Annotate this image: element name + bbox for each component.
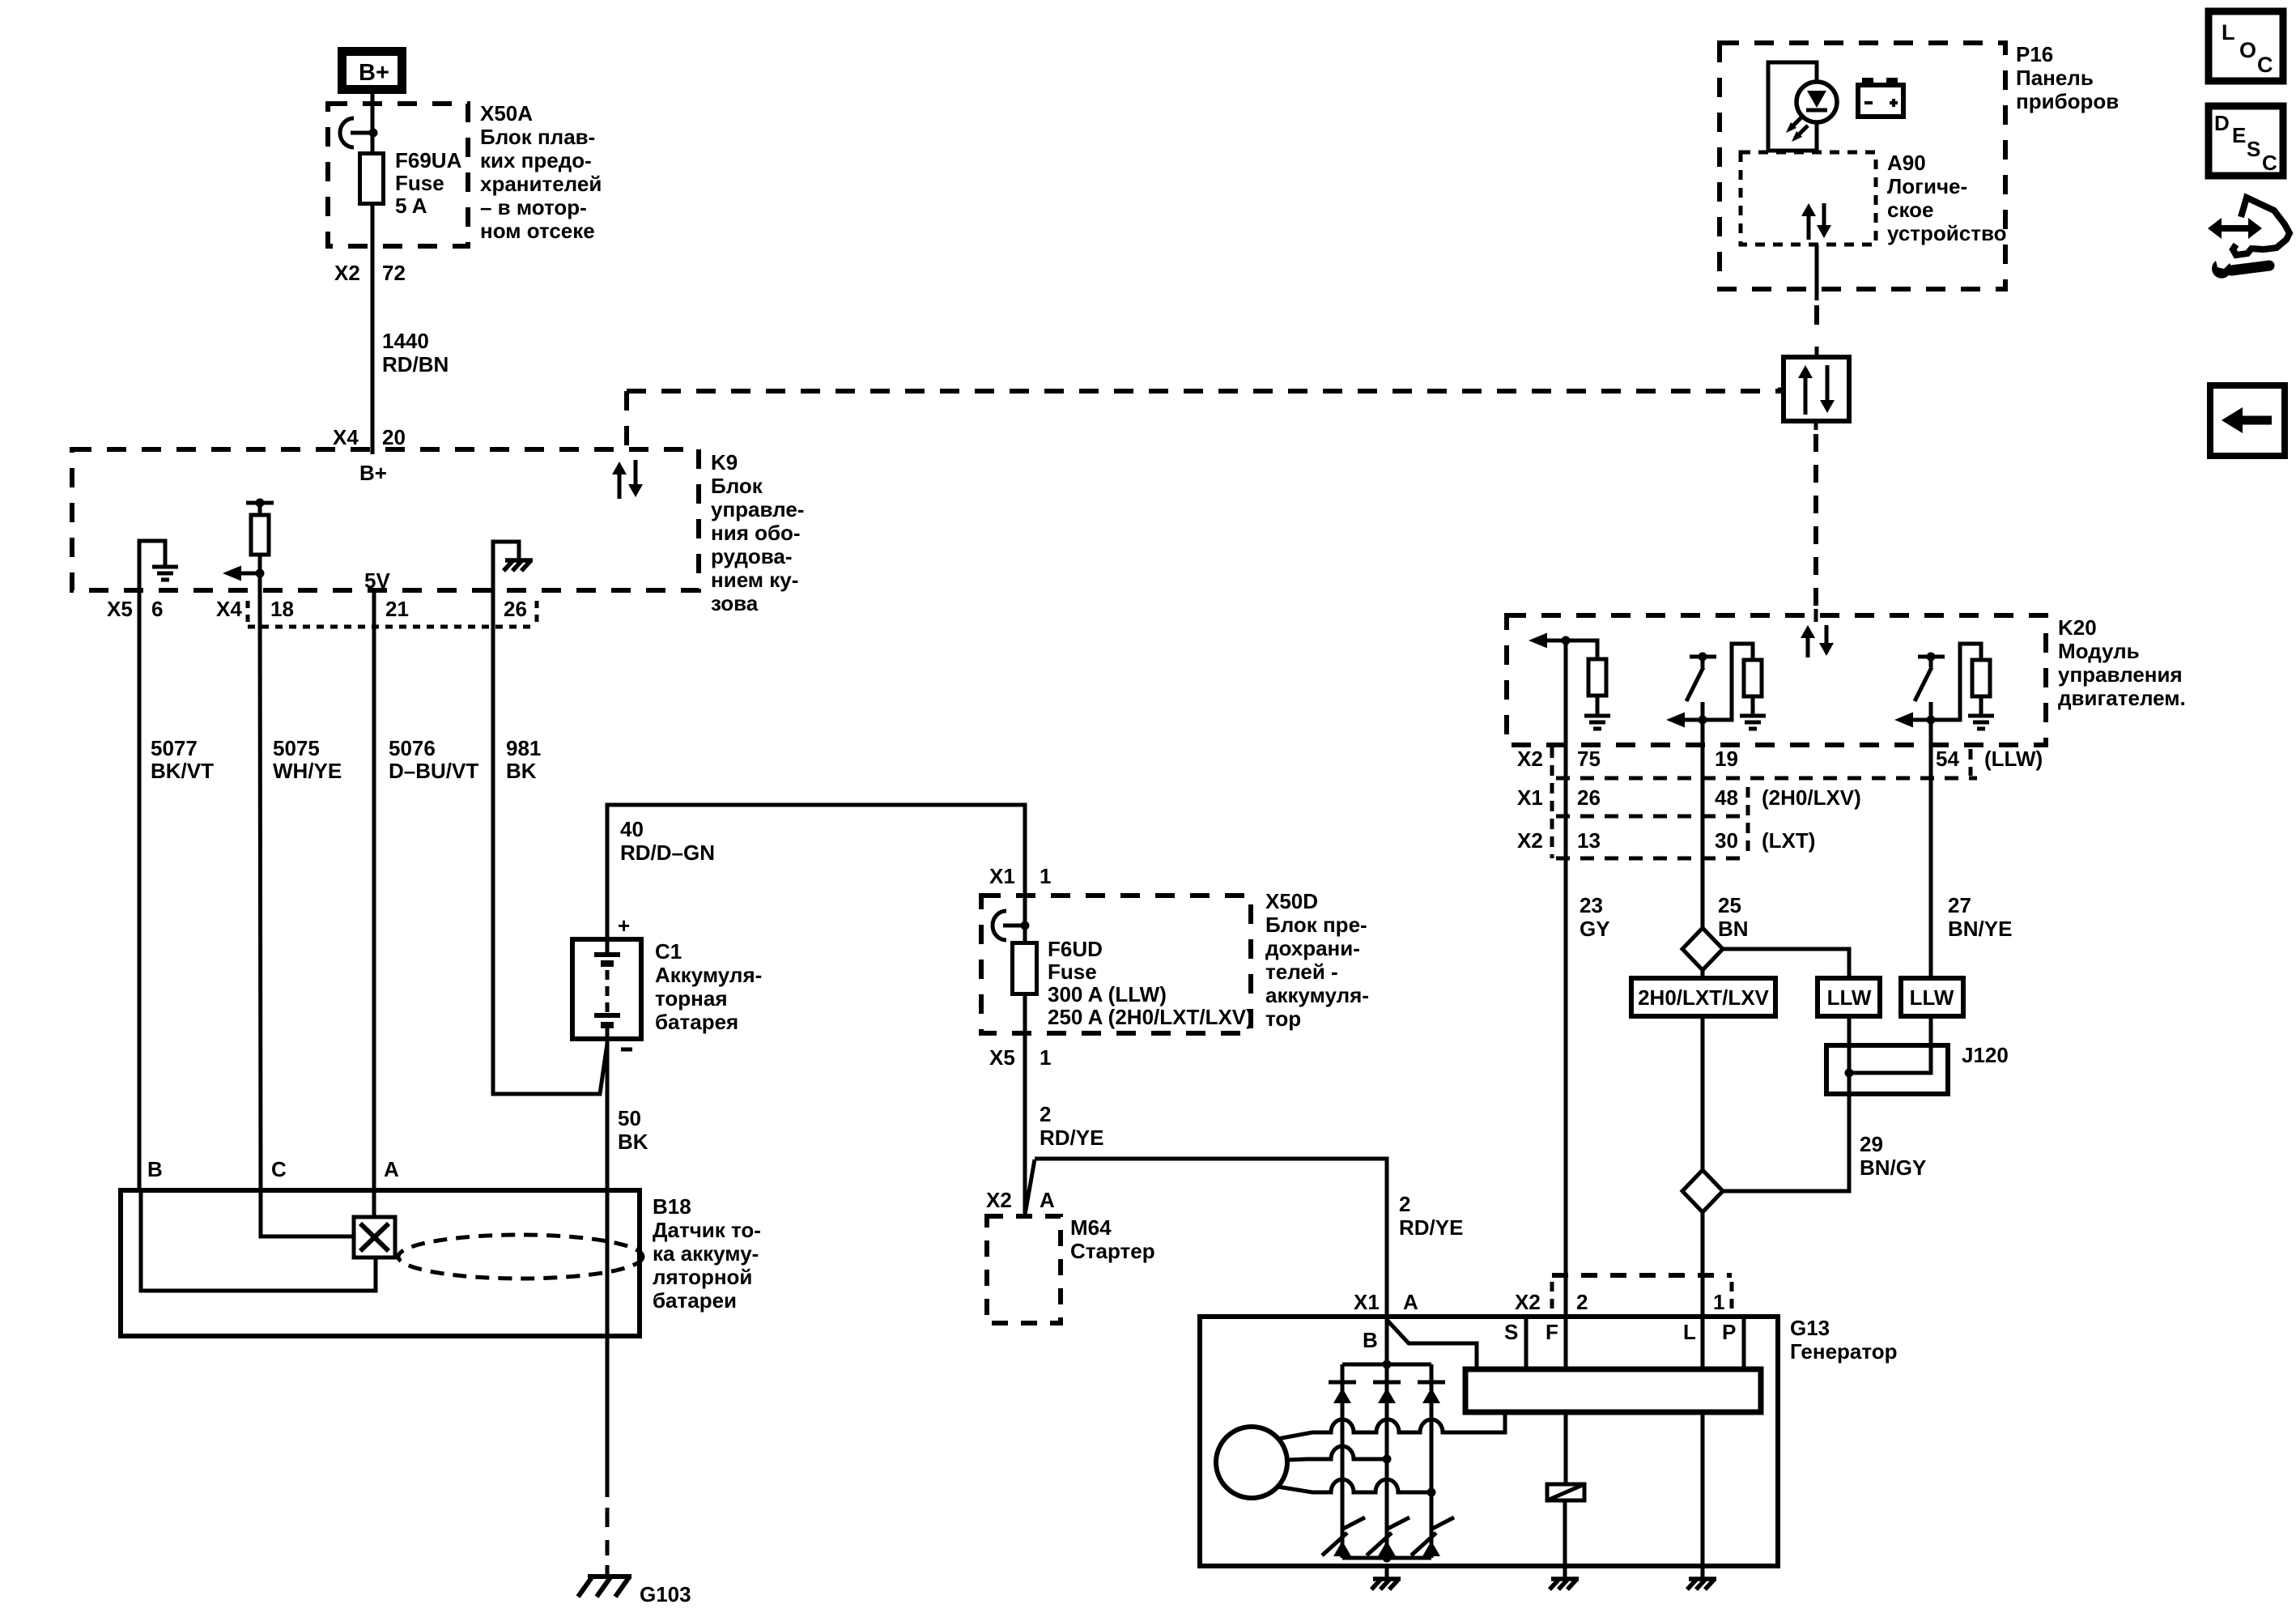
K20 circuit1 output arrow <box>1529 633 1547 649</box>
svg-text:– в мотор-: – в мотор- <box>480 195 587 219</box>
svg-text:X2: X2 <box>1517 828 1543 853</box>
generator ground L <box>1689 1577 1716 1581</box>
svg-text:Блок плав-: Блок плав- <box>480 125 595 149</box>
svg-text:устройство: устройство <box>1887 221 2006 245</box>
chassis ground in K9 <box>505 558 533 563</box>
svg-text:WH/YE: WH/YE <box>273 759 342 783</box>
wire diamond2 to generator pin 1 <box>1701 1212 1705 1566</box>
panel P16 dashed box <box>1720 43 2005 289</box>
pin cell dividers <box>1524 1317 1529 1369</box>
stator phase mid <box>1287 1446 1387 1460</box>
bottom avalanche diode left <box>1333 1541 1351 1556</box>
svg-text:RD/YE: RD/YE <box>1040 1126 1103 1150</box>
wire LLW1 branch <box>1723 949 1849 1191</box>
serial data arrows in K9 <box>618 471 622 499</box>
svg-text:телей -: телей - <box>1265 960 1338 984</box>
svg-text:26: 26 <box>1577 785 1601 810</box>
ground G103 <box>588 1574 631 1579</box>
svg-text:1: 1 <box>1040 864 1051 888</box>
icon back arrow box <box>2210 385 2285 456</box>
rectifier bottom rail <box>1342 1556 1431 1560</box>
svg-text:LLW: LLW <box>1910 985 1954 1010</box>
svg-text:Fuse: Fuse <box>395 171 444 195</box>
bottom avalanche diode right <box>1422 1541 1440 1556</box>
wire 23 GY K20 pin 75 to generator F <box>1564 640 1568 1484</box>
clip symbol at F6UD <box>993 911 1006 940</box>
K20 circuit3 output arrow <box>1894 713 1913 728</box>
power symbol B+ terminal <box>342 52 402 90</box>
svg-text:BN: BN <box>1718 917 1749 941</box>
svg-text:управле-: управле- <box>711 497 804 521</box>
svg-text:BK: BK <box>618 1130 648 1154</box>
sensor element box with X <box>354 1217 395 1257</box>
LED emission arrows <box>1789 117 1802 130</box>
engine option box LLW 1 <box>1818 978 1880 1016</box>
K20 circuit2 resistor <box>1703 644 1753 720</box>
rectifier column left <box>1341 1364 1345 1558</box>
rectifier top rail <box>1342 1363 1431 1367</box>
svg-text:ка аккуму-: ка аккуму- <box>653 1241 759 1266</box>
wire C inside B18 <box>261 1190 355 1236</box>
svg-text:ляторной: ляторной <box>653 1265 752 1289</box>
svg-text:ское: ское <box>1887 198 1933 222</box>
ground circuit K9 pin 6 <box>139 541 165 590</box>
svg-text:J120: J120 <box>1962 1043 2009 1067</box>
svg-text:LLW: LLW <box>1827 985 1872 1010</box>
svg-text:X4: X4 <box>333 425 359 449</box>
svg-text:6: 6 <box>151 597 163 621</box>
svg-text:40: 40 <box>620 817 644 841</box>
svg-text:батарея: батарея <box>655 1010 738 1034</box>
top diode mid <box>1373 1381 1401 1385</box>
sensor B18 box <box>121 1190 640 1336</box>
battery C1 <box>572 939 641 1039</box>
svg-text:29: 29 <box>1860 1132 1883 1156</box>
svg-text:B18: B18 <box>653 1194 691 1219</box>
svg-text:X5: X5 <box>989 1045 1015 1070</box>
wire B to regulator S <box>1387 1320 1477 1369</box>
svg-text:5075: 5075 <box>273 736 320 760</box>
svg-text:RD/BN: RD/BN <box>382 352 449 377</box>
svg-text:A: A <box>1040 1188 1055 1212</box>
svg-text:управления: управления <box>2058 662 2183 687</box>
svg-text:S: S <box>2247 137 2260 161</box>
splice pack J120 box <box>1826 1045 1948 1094</box>
svg-text:X1: X1 <box>1517 785 1543 810</box>
K20 circuit3 resistor <box>1931 644 1981 720</box>
K20 circuit1 ground <box>1584 714 1610 718</box>
svg-text:GY: GY <box>1580 917 1610 941</box>
svg-text:B+: B+ <box>359 461 387 485</box>
resistor in K9 <box>246 501 274 505</box>
svg-text:54: 54 <box>1936 747 1959 771</box>
logic device A90 dashed box <box>1741 152 1876 245</box>
svg-text:L: L <box>2222 20 2235 45</box>
svg-text:BK/VT: BK/VT <box>151 759 214 783</box>
connector bracket dashed lines <box>1550 747 1554 858</box>
svg-text:O: O <box>2239 38 2256 62</box>
connector box X50D dashed <box>981 896 1251 1033</box>
svg-text:5 A: 5 A <box>395 194 427 218</box>
wire serial data dashed K9 to gateway <box>624 391 629 450</box>
signal ground in K9 <box>152 565 178 569</box>
svg-text:(LXT): (LXT) <box>1762 828 1815 853</box>
serial data arrows in K20 <box>1806 635 1810 657</box>
svg-text:зова: зова <box>711 591 759 615</box>
svg-text:Аккумуля-: Аккумуля- <box>655 963 762 987</box>
svg-text:P16: P16 <box>2016 42 2053 66</box>
K20 circuit1 resistor <box>1566 640 1597 659</box>
svg-text:RD/YE: RD/YE <box>1399 1215 1463 1240</box>
svg-text:Блок пре-: Блок пре- <box>1265 913 1367 937</box>
svg-text:BK: BK <box>506 759 537 783</box>
dashed ellipse current loop <box>398 1235 643 1279</box>
svg-text:ном отсеке: ном отсеке <box>480 219 595 243</box>
connector X4 dotted bracket <box>246 601 250 627</box>
svg-text:D: D <box>2214 111 2230 135</box>
svg-text:торная: торная <box>655 986 728 1011</box>
svg-text:5077: 5077 <box>151 736 198 760</box>
LED circle <box>1796 82 1837 122</box>
svg-text:981: 981 <box>506 736 541 760</box>
svg-text:A90: A90 <box>1887 151 1926 175</box>
serial gateway arrows box <box>1784 357 1849 421</box>
svg-text:X1: X1 <box>989 864 1015 888</box>
wire 40 RD/D-GN <box>607 805 1025 939</box>
stator phase top <box>1278 1412 1505 1439</box>
svg-text:1440: 1440 <box>382 329 429 353</box>
svg-text:X50A: X50A <box>480 101 533 126</box>
wire A inside B18 <box>372 1190 376 1217</box>
svg-text:48: 48 <box>1715 785 1738 810</box>
wire 25 BN K20 pin 19 <box>1701 720 1705 928</box>
svg-text:X2: X2 <box>986 1188 1012 1212</box>
svg-text:X2: X2 <box>1515 1290 1541 1314</box>
wire fuse to K9 pin X4/20 <box>371 204 375 454</box>
battery minus label <box>621 1048 632 1052</box>
svg-text:L: L <box>1683 1320 1696 1344</box>
svg-text:D–BU/VT: D–BU/VT <box>389 759 478 783</box>
wire K9 resistor to pin 18 <box>258 573 262 590</box>
svg-text:G13: G13 <box>1790 1316 1830 1340</box>
svg-text:13: 13 <box>1577 828 1601 853</box>
clip symbol at X50A input <box>340 118 354 147</box>
svg-text:250 A (2H0/LXT/LXV): 250 A (2H0/LXT/LXV) <box>1048 1005 1253 1029</box>
stator phase bottom <box>1278 1479 1431 1492</box>
svg-text:Панель: Панель <box>2016 66 2094 90</box>
junction dot in J120 <box>1845 1069 1854 1078</box>
svg-text:2: 2 <box>1399 1192 1410 1216</box>
svg-text:X4: X4 <box>216 597 242 621</box>
K20 circuit2 output arrow <box>1666 713 1685 728</box>
svg-text:хранителей: хранителей <box>480 172 602 196</box>
wire 25 BN diamond to 2H0 box and diamond2 <box>1701 970 1705 1170</box>
K20 circuit2 ground <box>1740 714 1766 718</box>
field winding relay <box>1547 1484 1584 1500</box>
svg-text:C: C <box>271 1157 287 1181</box>
svg-text:A: A <box>1403 1290 1418 1314</box>
svg-text:рудова-: рудова- <box>711 544 793 568</box>
rectifier column right <box>1430 1364 1434 1558</box>
svg-text:Датчик то-: Датчик то- <box>653 1218 761 1242</box>
svg-text:25: 25 <box>1718 893 1741 917</box>
svg-text:S: S <box>1504 1320 1518 1344</box>
generator ground F <box>1551 1577 1579 1581</box>
svg-text:2H0/LXT/LXV: 2H0/LXT/LXV <box>1638 985 1769 1010</box>
svg-text:75: 75 <box>1577 747 1601 771</box>
svg-text:приборов: приборов <box>2016 89 2119 113</box>
svg-text:A: A <box>384 1157 399 1181</box>
svg-text:X2: X2 <box>1517 747 1543 771</box>
engine option box 2H0/LXT/LXV <box>1631 978 1775 1016</box>
svg-text:2: 2 <box>1576 1290 1588 1314</box>
generator ground B <box>1373 1577 1401 1581</box>
svg-text:двигателем.: двигателем. <box>2058 686 2186 710</box>
wire serial data dashed P16 to gateway <box>1815 277 1819 300</box>
svg-text:5076: 5076 <box>389 736 436 760</box>
svg-text:Блок: Блок <box>711 474 763 498</box>
wire splice to generator branch <box>1025 1160 1035 1215</box>
svg-text:BN/GY: BN/GY <box>1860 1155 1926 1180</box>
svg-text:C: C <box>2257 53 2273 77</box>
wire LLW2 to J120 junction <box>1849 1016 1931 1073</box>
svg-text:X1: X1 <box>1354 1290 1380 1314</box>
fuse F69UA <box>360 154 384 204</box>
K20 circuit2 switch <box>1690 655 1716 659</box>
svg-text:Fuse: Fuse <box>1048 960 1097 984</box>
svg-text:C1: C1 <box>655 939 682 964</box>
svg-text:Стартер: Стартер <box>1070 1239 1155 1263</box>
svg-text:ких предо-: ких предо- <box>480 148 592 172</box>
wire 5076 D-BU/VT <box>372 590 376 1190</box>
ground circuit K9 pin 26 <box>493 542 519 590</box>
svg-text:X2: X2 <box>334 261 360 285</box>
wire serial data dashed gateway to K20 <box>1813 434 1818 609</box>
splice diamond S2 <box>1682 1170 1723 1212</box>
svg-text:тор: тор <box>1265 1006 1301 1031</box>
svg-text:F: F <box>1546 1320 1558 1344</box>
svg-text:F6UD: F6UD <box>1048 937 1103 961</box>
svg-text:B+: B+ <box>359 60 389 86</box>
wire B inside B18 <box>141 1190 376 1291</box>
svg-text:(2H0/LXV): (2H0/LXV) <box>1762 785 1861 810</box>
wire 50 BK battery minus <box>606 1039 610 1497</box>
top diode right <box>1418 1381 1445 1385</box>
battery telltale icon <box>1858 85 1903 117</box>
svg-text:F69UA: F69UA <box>395 148 462 172</box>
svg-text:аккумуля-: аккумуля- <box>1265 983 1369 1007</box>
svg-text:G103: G103 <box>640 1582 691 1606</box>
svg-text:K9: K9 <box>711 450 738 474</box>
svg-text:+: + <box>618 913 630 938</box>
icon LOC box <box>2209 11 2283 81</box>
svg-text:300 A (LLW): 300 A (LLW) <box>1048 982 1167 1006</box>
wire B to rectifier <box>1385 1159 1389 1558</box>
svg-text:72: 72 <box>382 261 406 285</box>
svg-text:C: C <box>2262 151 2277 175</box>
svg-text:27: 27 <box>1948 893 1971 917</box>
indicator LED loop <box>1768 62 1817 151</box>
svg-text:5V: 5V <box>364 568 390 593</box>
K20 circuit3 ground <box>1968 714 1994 718</box>
svg-text:26: 26 <box>504 597 527 621</box>
svg-text:30: 30 <box>1715 828 1738 853</box>
svg-text:ния обо-: ния обо- <box>711 521 801 545</box>
wire 27 BN/YE K20 pin 54 <box>1929 720 1933 978</box>
wire 5075 WH/YE <box>260 590 261 1190</box>
stator winding circle <box>1216 1427 1287 1498</box>
svg-text:X50D: X50D <box>1265 889 1318 913</box>
K20 circuit3 switch <box>1918 655 1945 659</box>
icon DESC box <box>2209 106 2283 176</box>
svg-text:P: P <box>1722 1320 1736 1344</box>
serial data arrows in A90 <box>1807 213 1811 240</box>
svg-text:BN/YE: BN/YE <box>1948 917 2012 941</box>
wire A90 output <box>1815 245 1819 277</box>
module K20 dashed box <box>1507 615 2046 745</box>
svg-text:RD/D–GN: RD/D–GN <box>620 840 715 865</box>
svg-text:Модуль: Модуль <box>2058 639 2140 663</box>
dashed wire to G103 <box>606 1508 610 1527</box>
wire 5077 BK/VT <box>138 590 142 1190</box>
svg-text:1: 1 <box>1040 1045 1051 1070</box>
svg-text:Логиче-: Логиче- <box>1887 174 1967 198</box>
svg-text:1: 1 <box>1713 1290 1724 1314</box>
svg-text:21: 21 <box>385 597 409 621</box>
fuse F6UD <box>1013 943 1037 994</box>
icon diagnostic arrow and wrench <box>2233 198 2290 255</box>
svg-text:18: 18 <box>270 597 294 621</box>
svg-text:K20: K20 <box>2058 615 2097 640</box>
svg-text:2: 2 <box>1040 1102 1051 1126</box>
svg-text:B: B <box>147 1157 163 1181</box>
svg-text:B: B <box>1363 1328 1378 1352</box>
svg-text:19: 19 <box>1715 747 1738 771</box>
wire B+ to fuse F69UA <box>371 94 375 152</box>
svg-text:M64: M64 <box>1070 1215 1112 1240</box>
svg-text:(LLW): (LLW) <box>1984 747 2043 771</box>
bottom avalanche diode mid <box>1378 1541 1396 1556</box>
engine option box LLW 2 <box>1901 978 1963 1016</box>
connector box X50A dashed <box>328 104 468 246</box>
svg-text:Генератор: Генератор <box>1790 1339 1898 1364</box>
svg-text:23: 23 <box>1580 893 1603 917</box>
svg-text:20: 20 <box>382 425 406 449</box>
node junction with output arrow in K9 <box>256 569 265 578</box>
wire fuse to X5/1 and M64 <box>1023 994 1027 1216</box>
wire 981 BK <box>493 590 607 1094</box>
svg-text:X5: X5 <box>107 597 133 621</box>
starter M64 dashed box <box>987 1216 1061 1323</box>
splice diamond S1 <box>1682 928 1723 970</box>
svg-text:E: E <box>2232 123 2246 147</box>
voltage regulator box <box>1465 1369 1761 1412</box>
generator G13 box <box>1200 1317 1778 1566</box>
module K9 dashed box <box>72 449 699 590</box>
svg-text:батареи: батареи <box>653 1288 737 1313</box>
svg-text:нием ку-: нием ку- <box>711 568 798 592</box>
svg-text:дохрани-: дохрани- <box>1265 936 1360 960</box>
svg-text:50: 50 <box>618 1106 641 1130</box>
top diode left <box>1329 1381 1356 1385</box>
